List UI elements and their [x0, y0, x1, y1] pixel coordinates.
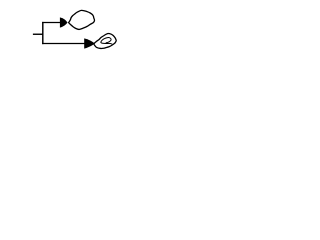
inner loop [101, 37, 113, 44]
arrowhead top [60, 17, 68, 27]
arrowhead bottom [84, 38, 95, 48]
outer ellipse [94, 34, 116, 49]
wire vertical branch [42, 22, 44, 44]
cloud blob [69, 10, 95, 29]
wire bottom branch [42, 43, 85, 45]
wire input stub [33, 33, 44, 35]
wire top branch [42, 22, 60, 24]
